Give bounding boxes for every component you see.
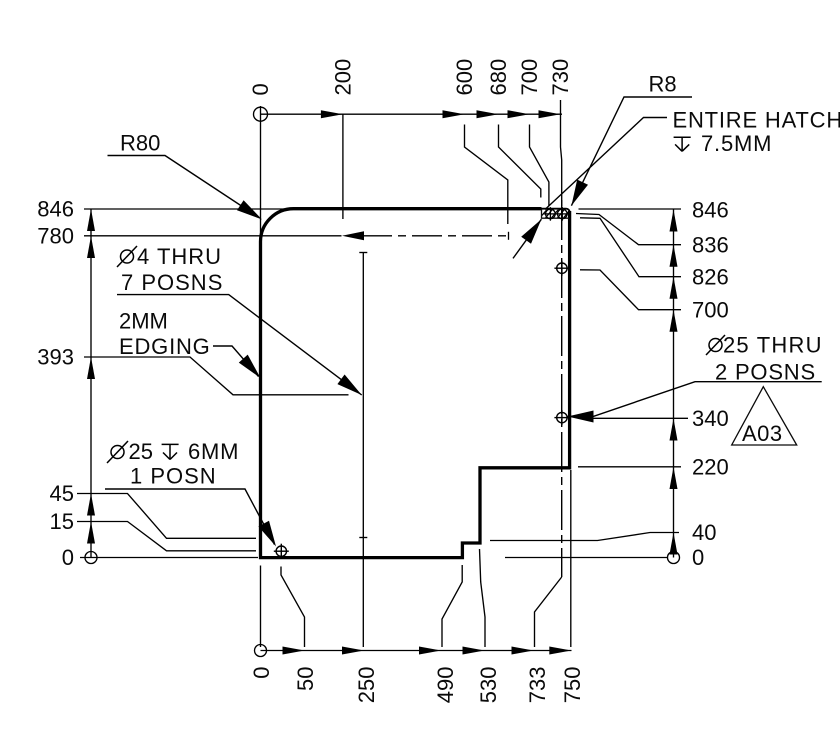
right dimension line (668, 209, 680, 564)
svg-text:826: 826 (692, 264, 729, 289)
svg-text:6MM: 6MM (188, 439, 239, 464)
svg-text:846: 846 (37, 197, 74, 222)
svg-text:ENTIRE HATCH: ENTIRE HATCH (673, 108, 840, 133)
svg-text:50: 50 (293, 667, 318, 691)
R80 leader (108, 156, 260, 218)
svg-text:250: 250 (354, 667, 379, 704)
top dimension line (254, 106, 563, 240)
left dim arrows (87, 209, 95, 544)
733/730 vertical centerline dash-dot (561, 200, 563, 577)
svg-text:750: 750 (560, 667, 585, 704)
right dim arrows (670, 210, 678, 555)
dia25 thru leader (568, 382, 822, 417)
hole (730,340) dia25 thru (554, 410, 569, 425)
bottom dim arrows (283, 647, 572, 655)
svg-text:1 POSN: 1 POSN (130, 464, 217, 489)
svg-text:220: 220 (692, 455, 729, 480)
svg-text:15: 15 (50, 509, 74, 534)
svg-text:680: 680 (486, 59, 511, 96)
svg-text:4 THRU: 4 THRU (137, 244, 222, 269)
left labels (37, 197, 74, 570)
svg-text:40: 40 (692, 520, 716, 545)
hole (730,700) on right edge (554, 261, 569, 276)
left dimension line (85, 209, 97, 564)
svg-text:846: 846 (692, 198, 729, 223)
svg-text:7 POSNS: 7 POSNS (121, 270, 223, 295)
bottom labels (rotated) (249, 667, 585, 704)
depth symbol 7.5mm (674, 137, 691, 151)
svg-text:700: 700 (692, 297, 729, 322)
top labels (rotated) (248, 59, 573, 96)
svg-text:0: 0 (62, 545, 74, 570)
hole position marker in notch (730,836) (556, 207, 570, 221)
svg-text:25: 25 (129, 439, 153, 464)
hole position marker in notch (700,836) (544, 207, 558, 221)
dia25 6mm leader (105, 489, 275, 545)
svg-text:EDGING: EDGING (119, 334, 211, 359)
svg-text:780: 780 (37, 224, 74, 249)
2mm edging leader (213, 346, 259, 377)
bottom extension lines (261, 470, 571, 647)
svg-text:45: 45 (50, 481, 74, 506)
svg-text:600: 600 (452, 59, 477, 96)
dia4 leader (117, 295, 362, 395)
svg-text:A03: A03 (742, 421, 783, 446)
svg-text:25 THRU: 25 THRU (723, 333, 823, 358)
svg-text:2MM: 2MM (119, 309, 168, 334)
hatch lines (538, 205, 578, 221)
horizontal centerline y=780 dash-dot (362, 232, 509, 240)
R8 leader (571, 97, 692, 206)
bottom dimension line (255, 645, 572, 657)
svg-text:2 POSNS: 2 POSNS (715, 360, 816, 385)
svg-text:490: 490 (433, 667, 458, 704)
svg-text:7.5MM: 7.5MM (701, 131, 772, 156)
svg-text:340: 340 (692, 406, 729, 431)
svg-text:0: 0 (248, 83, 273, 95)
right extension lines (490, 209, 688, 558)
entire hatch leader (513, 118, 667, 259)
A03 revision triangle (732, 387, 797, 445)
svg-text:700: 700 (517, 59, 542, 96)
svg-text:730: 730 (548, 59, 573, 96)
top extension lines (343, 100, 562, 224)
vertical centerline x=250 (359, 253, 367, 648)
svg-text:393: 393 (37, 345, 74, 370)
svg-text:0: 0 (692, 545, 704, 570)
svg-text:733: 733 (525, 667, 550, 704)
hatched pocket notch (542, 210, 570, 219)
part outline (261, 209, 570, 558)
svg-text:200: 200 (331, 59, 356, 96)
svg-text:836: 836 (692, 233, 729, 258)
top dim arrows (321, 110, 561, 118)
arrow left on 780 line (342, 231, 364, 240)
svg-text:R8: R8 (649, 72, 677, 97)
left extension lines (77, 209, 349, 558)
svg-text:530: 530 (476, 667, 501, 704)
svg-text:0: 0 (249, 667, 274, 679)
hole (50,15) dia25 depth 6mm (274, 544, 289, 559)
svg-text:R80: R80 (120, 131, 160, 156)
right labels (692, 198, 729, 571)
